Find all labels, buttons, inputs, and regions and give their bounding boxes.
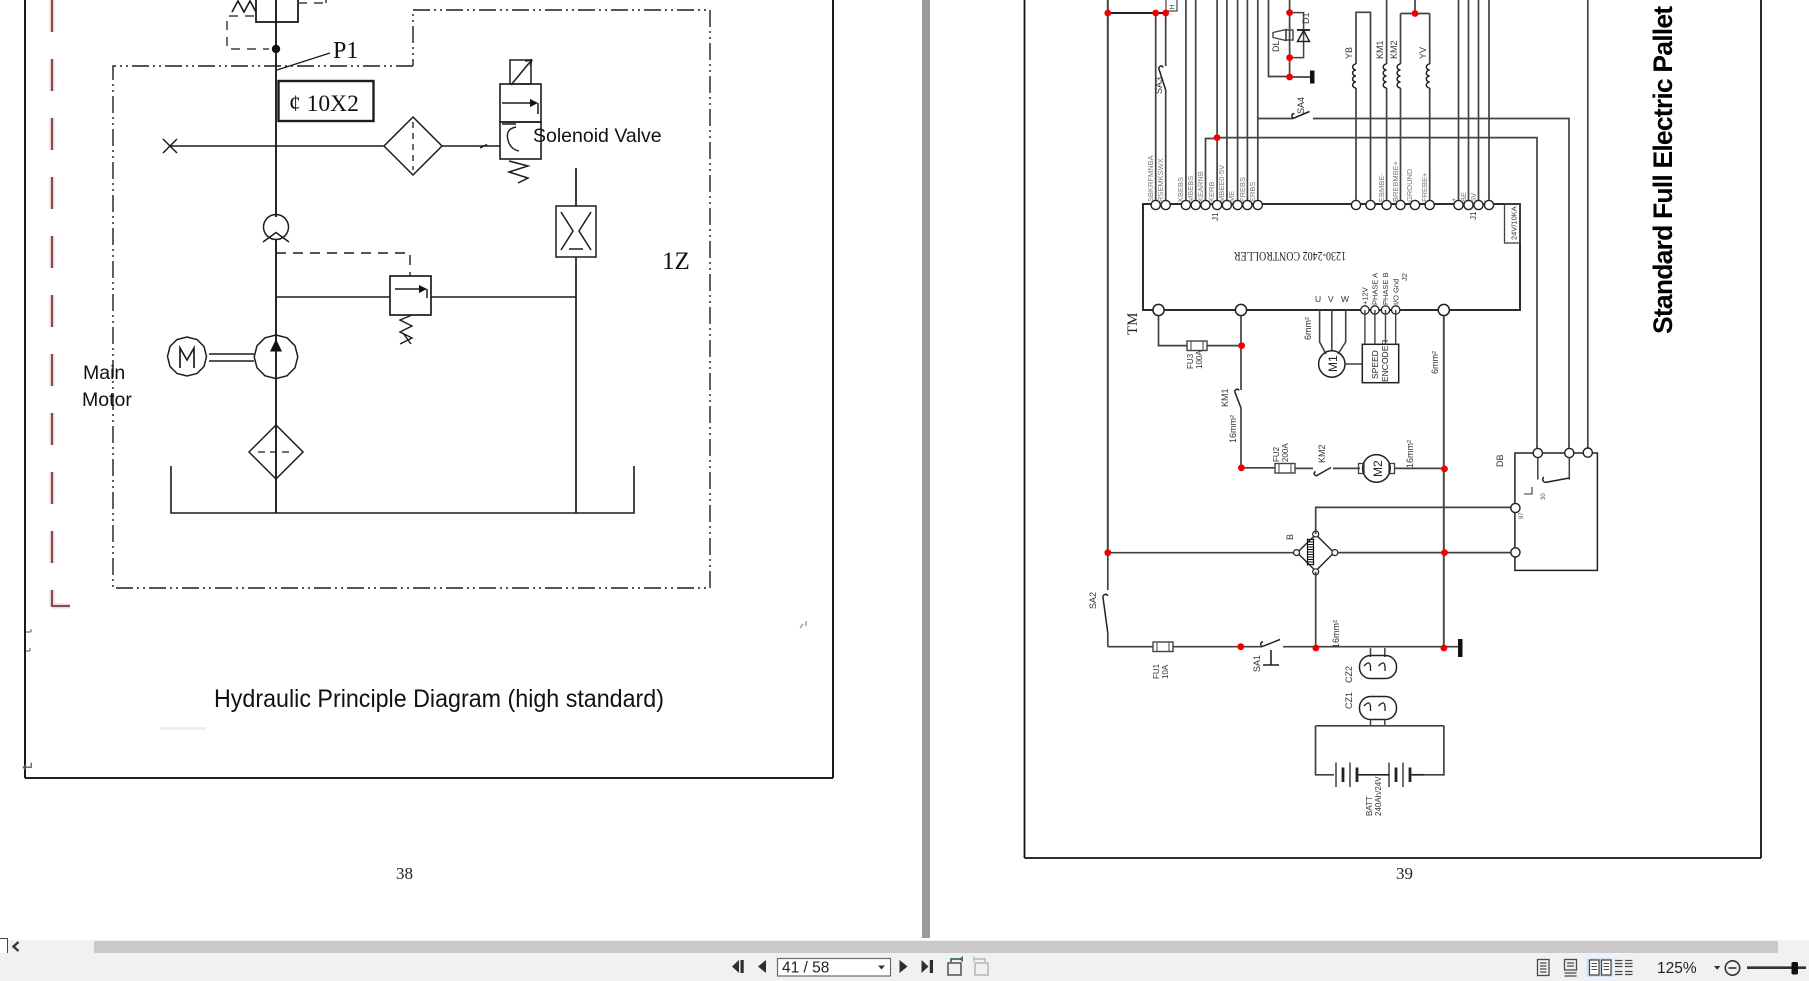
svg-text:MBEE0-5V: MBEE0-5V bbox=[1217, 165, 1226, 202]
svg-text:SA4: SA4 bbox=[1296, 97, 1306, 114]
controller power pins B+ B- bbox=[1153, 304, 1450, 315]
svg-text:↵: ↵ bbox=[22, 759, 35, 776]
svg-text:KM2: KM2 bbox=[1317, 444, 1327, 463]
pin labels (input group) bbox=[1146, 155, 1257, 202]
svg-text:-: - bbox=[1480, 199, 1489, 202]
wire: relief valve branch bbox=[276, 296, 576, 298]
svg-text:DL: DL bbox=[1271, 40, 1281, 52]
svg-text:KM2: KM2 bbox=[1389, 40, 1399, 59]
node: M2 / B- rail junction bbox=[1441, 466, 1448, 473]
zoom dropdown arrow bbox=[1714, 966, 1720, 970]
svg-text:ME: ME bbox=[1227, 191, 1236, 202]
page number input 41 / 58 bbox=[778, 959, 891, 977]
node: horn bus / B- rail junction bbox=[1441, 549, 1448, 556]
fuse FU1 10A bbox=[1153, 642, 1262, 652]
switch SA3 bbox=[1159, 13, 1166, 205]
solenoid valve SV bbox=[500, 60, 541, 184]
svg-text:¢ 10X2: ¢ 10X2 bbox=[289, 91, 359, 117]
svg-text:PHASE B: PHASE B bbox=[1381, 272, 1390, 305]
node: horn / diode bottom junction bbox=[1286, 54, 1293, 61]
controller aux pins bbox=[1454, 200, 1494, 209]
svg-text:B: B bbox=[1285, 534, 1295, 540]
svg-text:FREBS: FREBS bbox=[1238, 177, 1247, 202]
relay coil YV bbox=[1426, 14, 1429, 206]
svg-text:16mm²: 16mm² bbox=[1228, 415, 1238, 443]
controller 1230-2402 bbox=[1143, 204, 1520, 310]
svg-text:16mm²: 16mm² bbox=[1405, 440, 1415, 468]
electric motor M bbox=[168, 337, 207, 376]
svg-text:KM1: KM1 bbox=[1220, 388, 1230, 407]
zoom out button bbox=[1725, 961, 1739, 975]
wire: aux input 3 bbox=[1478, 0, 1480, 205]
svg-text:6mm²: 6mm² bbox=[1430, 351, 1440, 374]
diode D1 branch bbox=[1290, 13, 1304, 58]
wire: top feed bus bbox=[1108, 12, 1166, 14]
svg-text:+: + bbox=[1449, 197, 1458, 202]
connector CZ1 bbox=[1360, 697, 1397, 726]
labels +12V PHASE A PHASE B I/O Gnd J2 bbox=[1361, 272, 1410, 305]
wire: horn branch left bbox=[1269, 0, 1290, 77]
horn DL bbox=[1273, 30, 1293, 41]
key switch SA1 bbox=[1261, 640, 1458, 666]
wire: SA3 feed bbox=[1155, 13, 1157, 205]
svg-text:ENCODER: ENCODER bbox=[1380, 339, 1390, 382]
wire: input 4 bbox=[1195, 0, 1197, 205]
node: bus2 junction bbox=[1214, 134, 1221, 141]
node: coil feed junction bbox=[1412, 10, 1419, 17]
ground (horn circuit) bbox=[1290, 71, 1315, 84]
wire: bus2 to DB coil bbox=[1217, 138, 1537, 453]
svg-text:BREBMBE+: BREBMBE+ bbox=[1391, 160, 1400, 202]
svg-text:10A: 10A bbox=[1161, 664, 1170, 679]
diode D1 bbox=[1297, 30, 1310, 42]
leader line P1 bbox=[277, 53, 330, 70]
svg-text:SA3: SA3 bbox=[1154, 77, 1164, 94]
svg-text:SA1: SA1 bbox=[1252, 655, 1262, 672]
label FU1 10A bbox=[1152, 663, 1170, 679]
wire: battery+ rail (left long vertical) bbox=[1107, 0, 1109, 553]
wire: aux input 2 bbox=[1468, 0, 1470, 205]
node: horn / diode top junction bbox=[1286, 9, 1293, 16]
svg-text:YV: YV bbox=[1418, 47, 1428, 59]
fuse FU2 200A bbox=[1275, 464, 1313, 474]
node: battery+ / horn bus junction bbox=[1104, 549, 1111, 556]
svg-text:J1: J1 bbox=[1469, 211, 1478, 220]
wire: input 5 stub bbox=[1206, 139, 1218, 206]
svg-text:200A: 200A bbox=[1281, 443, 1290, 462]
wire: horn bus bbox=[1108, 552, 1516, 554]
wire: input 7 bbox=[1226, 0, 1228, 205]
svg-text:SA2: SA2 bbox=[1088, 592, 1098, 609]
wire: pump branch from KM1 bbox=[1241, 467, 1275, 469]
wires U V W to motor M1 bbox=[1320, 310, 1346, 354]
svg-text:RSEMKSWX: RSEMKSWX bbox=[1156, 158, 1165, 202]
tank bbox=[171, 466, 634, 513]
svg-text:SPEED: SPEED bbox=[1370, 350, 1380, 379]
wire: main pressure line P1 vertical bbox=[275, 0, 277, 513]
node: bottom bus / ground junction bbox=[1441, 645, 1448, 652]
ground (battery) bbox=[1458, 639, 1463, 657]
wire: input 6 bbox=[1216, 0, 1218, 205]
speed encoder bbox=[1362, 339, 1398, 382]
wire: aux input 1 bbox=[1458, 0, 1460, 205]
svg-text:24V/10KA: 24V/10KA bbox=[1510, 206, 1519, 240]
wire: input 9 bbox=[1246, 0, 1248, 205]
svg-text:W: W bbox=[1341, 294, 1349, 304]
label FU3 100A bbox=[1186, 350, 1204, 369]
node: top bus / SA3 wire junction bbox=[1162, 10, 1169, 17]
svg-text:KBEBS: KBEBS bbox=[1176, 177, 1185, 202]
wire: motor to encoder bbox=[1345, 363, 1362, 365]
next page button bbox=[900, 960, 908, 973]
svg-text:J1: J1 bbox=[1211, 212, 1220, 221]
node: horn ground junction bbox=[1286, 74, 1293, 81]
wire: B- ground rail bbox=[1443, 316, 1445, 648]
svg-text:Motor: Motor bbox=[82, 389, 132, 411]
svg-text:Standard Full Electric Pallet: Standard Full Electric Pallet Stacker bbox=[1648, 0, 1678, 334]
svg-text:SBKRFMNBA: SBKRFMNBA bbox=[1146, 155, 1155, 202]
wires encoder pins bbox=[1365, 310, 1396, 344]
svg-text:1230-2402 CONTROLLER: 1230-2402 CONTROLLER bbox=[1234, 249, 1346, 264]
wire: input 3 bbox=[1185, 0, 1187, 205]
relay coil YB bbox=[1353, 12, 1371, 205]
wire: traction feed bbox=[1240, 316, 1242, 390]
svg-text:1Z: 1Z bbox=[662, 248, 690, 275]
wire: horn branch main bbox=[1289, 0, 1291, 77]
wire: relay NO contact feed bbox=[1587, 0, 1589, 453]
svg-text:FU3: FU3 bbox=[1186, 353, 1195, 369]
svg-text:ERBS: ERBS bbox=[1248, 182, 1257, 202]
svg-text:TM: TM bbox=[1125, 313, 1141, 336]
wire: coil feed bbox=[1414, 0, 1416, 14]
svg-text:U: U bbox=[1315, 294, 1321, 304]
pilot dashed line (top right stub) bbox=[298, 0, 326, 3]
first page button bbox=[732, 960, 744, 973]
svg-text:BATT: BATT bbox=[1365, 796, 1374, 816]
relay coil KM1 (wire) bbox=[1383, 0, 1386, 205]
svg-text:KEARNB: KEARNB bbox=[1196, 171, 1205, 202]
label Main Motor bbox=[82, 362, 132, 411]
wire: input 8 bbox=[1237, 0, 1239, 205]
svg-text:GROUND: GROUND bbox=[1405, 168, 1414, 202]
zoom slider bbox=[1747, 966, 1806, 969]
svg-text:H: H bbox=[1170, 4, 1177, 9]
svg-text:FU2: FU2 bbox=[1272, 446, 1281, 462]
svg-text:DB: DB bbox=[1495, 454, 1505, 467]
wire: bottom bus bbox=[1108, 646, 1153, 648]
label FU2 200A bbox=[1272, 443, 1290, 462]
node: battery+ / top bus junction bbox=[1104, 10, 1111, 17]
view mode: two page continuous bbox=[1615, 961, 1633, 975]
node: bottom bus / horn junction bbox=[1313, 645, 1320, 652]
svg-text:41 / 58: 41 / 58 bbox=[782, 960, 829, 977]
scrollbar corner box bbox=[0, 938, 8, 954]
svg-text:I/O Gnd: I/O Gnd bbox=[1392, 279, 1401, 305]
svg-text:Solenoid Valve: Solenoid Valve bbox=[533, 125, 662, 147]
svg-text:M2: M2 bbox=[1371, 460, 1385, 477]
controller encoder pins bbox=[1361, 306, 1400, 314]
pin labels (coil group) bbox=[1377, 160, 1429, 202]
node: top bus / SA3 feed junction bbox=[1152, 10, 1159, 17]
relief valve (top, clipped) bbox=[232, 0, 298, 22]
pin labels (aux group) bbox=[1449, 192, 1489, 202]
svg-text:39: 39 bbox=[1396, 864, 1413, 883]
stray mark right bbox=[800, 621, 806, 628]
pilot dashed line (top valve) bbox=[227, 16, 269, 49]
controller input pins J1 bbox=[1151, 200, 1262, 209]
wire: horn bottom bbox=[1315, 572, 1317, 648]
svg-text:FREBE+: FREBE+ bbox=[1420, 172, 1429, 202]
wire: suction test line with X plug bbox=[163, 139, 500, 153]
contactor KM2 main contact bbox=[1314, 468, 1360, 477]
relay DB bbox=[1511, 448, 1598, 570]
flow control valve bbox=[556, 206, 596, 257]
svg-text:87: 87 bbox=[1519, 512, 1525, 519]
page frame border (right page) bbox=[1025, 0, 1762, 858]
label BATT 240Ah/24V bbox=[1365, 776, 1383, 816]
switch SA2 bbox=[1103, 553, 1108, 647]
relay coil KM2 bbox=[1397, 14, 1430, 206]
relief valve RV1 bbox=[390, 276, 431, 344]
wire: horn top to DB bbox=[1316, 507, 1516, 534]
svg-text:100A: 100A bbox=[1195, 350, 1204, 369]
view mode: continuous bbox=[1565, 960, 1577, 977]
red revision dashed line bbox=[52, 0, 70, 607]
pilot dashed line to relief valve bbox=[276, 253, 410, 276]
svg-text:M1: M1 bbox=[1326, 355, 1340, 372]
last page button bbox=[922, 960, 934, 973]
wire: input 10 bbox=[1257, 0, 1259, 205]
filter (diamond) on solenoid line bbox=[384, 117, 442, 175]
svg-text:Main: Main bbox=[83, 362, 125, 384]
suction filter (diamond) bbox=[249, 425, 303, 479]
svg-text:+12V: +12V bbox=[1361, 287, 1370, 305]
label box &#162;10X2 bbox=[279, 81, 374, 121]
svg-text:P1: P1 bbox=[333, 38, 358, 64]
fuse FU3 100A bbox=[1187, 341, 1242, 351]
svg-text:30: 30 bbox=[1541, 493, 1547, 500]
contactor KM1 main contact bbox=[1235, 389, 1242, 468]
wire: cylinder line 1Z vertical bbox=[575, 168, 577, 513]
svg-text:J2: J2 bbox=[1400, 273, 1409, 281]
controller coil pins bbox=[1351, 200, 1434, 209]
coupling shaft bbox=[209, 354, 254, 361]
svg-text:240Ah/24V: 240Ah/24V bbox=[1374, 776, 1383, 816]
previous page button bbox=[758, 960, 766, 973]
svg-text:KERB: KERB bbox=[1207, 182, 1216, 202]
battery BATT 240Ah/24V bbox=[1316, 726, 1444, 787]
svg-text:FU1: FU1 bbox=[1152, 663, 1161, 679]
faint smudge bbox=[160, 727, 206, 730]
svg-text:YB: YB bbox=[1344, 47, 1354, 59]
rotate counterclockwise button bbox=[948, 956, 963, 975]
scrollbar track bbox=[0, 940, 1809, 953]
svg-text:125%: 125% bbox=[1657, 960, 1697, 977]
svg-text:MBEBS: MBEBS bbox=[1186, 176, 1195, 202]
svg-text:5V: 5V bbox=[1469, 193, 1478, 202]
connector CZ2 bbox=[1360, 648, 1397, 679]
node: KM1 / FU2 junction bbox=[1238, 464, 1245, 471]
svg-text:Hydraulic Principle Diagram (h: Hydraulic Principle Diagram (high standa… bbox=[214, 685, 664, 713]
rotate clockwise button (disabled) bbox=[973, 956, 988, 975]
page separator bar bbox=[922, 0, 930, 938]
check valve bbox=[263, 215, 289, 243]
connector H (tiny box, clipped) bbox=[1166, 0, 1177, 11]
stray comment marks bbox=[26, 629, 31, 651]
svg-text:KM1: KM1 bbox=[1375, 40, 1385, 59]
wire: aux input 4 bbox=[1488, 0, 1490, 205]
svg-text:6mm²: 6mm² bbox=[1303, 317, 1313, 340]
scrollbar left arrow bbox=[10, 941, 22, 952]
svg-text:16mm²: 16mm² bbox=[1331, 620, 1341, 648]
labels U V W bbox=[1315, 294, 1349, 304]
dash-dot boundary frame 1Z bbox=[113, 10, 710, 588]
traction motor M1 bbox=[1319, 351, 1345, 377]
node: bottom bus / SA1 junction bbox=[1237, 643, 1244, 650]
svg-text:EBMBE-: EBMBE- bbox=[1377, 173, 1386, 202]
page frame border (left page) bbox=[25, 0, 833, 778]
svg-text:BE: BE bbox=[1459, 192, 1468, 202]
horn B bbox=[1294, 531, 1338, 575]
wire: bus to SA4 bbox=[1259, 118, 1293, 120]
node P1 junction dot bbox=[272, 45, 280, 53]
pump motor M2 bbox=[1359, 455, 1445, 483]
svg-text:V: V bbox=[1328, 294, 1334, 304]
svg-text:CZ2: CZ2 bbox=[1344, 666, 1354, 683]
scrollbar thumb bbox=[94, 941, 1778, 953]
view mode: two page (active) bbox=[1587, 958, 1613, 977]
svg-text:PHASE A: PHASE A bbox=[1371, 273, 1380, 305]
view mode: single page bbox=[1538, 960, 1550, 976]
wire: B+ to fuse FU3 bbox=[1159, 316, 1188, 346]
svg-text:38: 38 bbox=[396, 864, 413, 883]
node: FU3 / KM1 junction bbox=[1238, 342, 1245, 349]
svg-text:CZ1: CZ1 bbox=[1344, 692, 1354, 709]
svg-text:D1: D1 bbox=[1301, 12, 1311, 24]
pump bbox=[254, 335, 298, 379]
switch SA4 bbox=[1292, 112, 1569, 454]
